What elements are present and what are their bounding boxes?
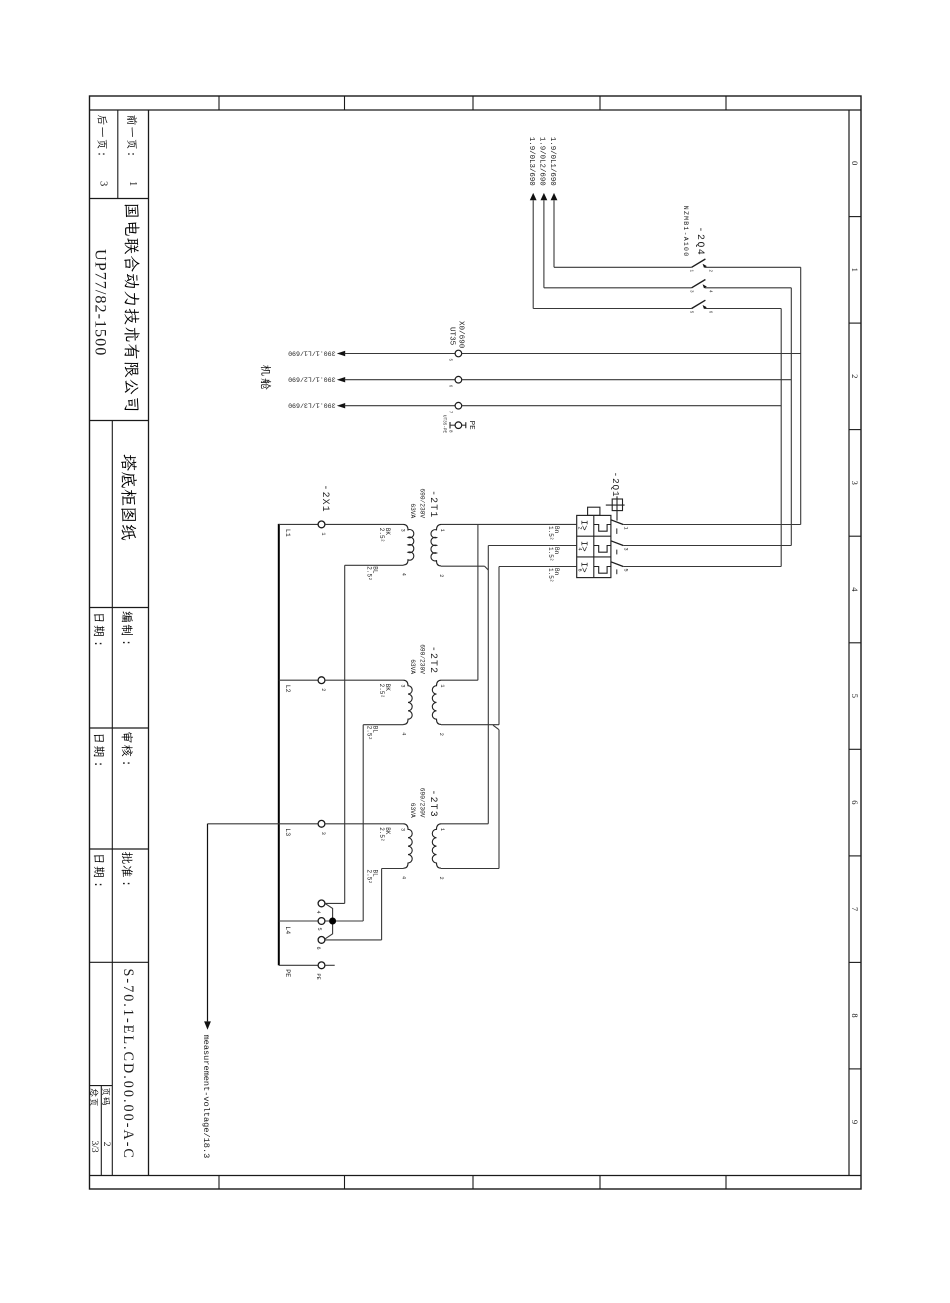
- terminal -2X1:PE: [279, 964, 318, 966]
- svg-text:5: 5: [622, 569, 628, 572]
- breaker -2Q1 pole 3 contact: [611, 562, 623, 567]
- svg-text::: :: [91, 761, 105, 768]
- terminal -2X1:3: [279, 823, 318, 825]
- wire 690V phase 3 riser: [780, 309, 782, 567]
- transformer transformer -2T3 690/230V 63VA: [404, 824, 413, 868]
- wire riser C lower to -2T3:2: [498, 730, 500, 869]
- svg-text:8: 8: [850, 1013, 860, 1017]
- svg-text:L1: L1: [284, 529, 291, 537]
- svg-text:2: 2: [438, 733, 444, 736]
- svg-text::: :: [119, 639, 133, 646]
- wire -2T2:2 to riser C: [441, 724, 499, 726]
- svg-text:1: 1: [320, 532, 326, 535]
- svg-text:3: 3: [689, 290, 694, 293]
- svg-text:PE: PE: [284, 969, 291, 977]
- svg-text:4: 4: [707, 290, 712, 293]
- svg-text:2: 2: [101, 1142, 111, 1147]
- transformer transformer -2T1 690/230V 63VA: [404, 524, 414, 565]
- svg-text:measurement-voltage/18.3: measurement-voltage/18.3: [201, 1035, 211, 1159]
- title page-number sub-table: [90, 1085, 113, 1087]
- svg-text:L3: L3: [284, 828, 291, 836]
- svg-text:-2X1: -2X1: [320, 485, 331, 513]
- svg-text:5: 5: [447, 359, 452, 362]
- svg-text:63VA: 63VA: [409, 503, 416, 518]
- wire X0:7 to riser: [462, 405, 782, 407]
- drawing frame outer border: [90, 96, 862, 1189]
- svg-text:-2Q1: -2Q1: [610, 472, 621, 498]
- svg-text:-2T3: -2T3: [428, 790, 439, 818]
- svg-text:4: 4: [400, 732, 406, 735]
- wire -2T1:2 jog to riser B: [441, 565, 485, 567]
- svg-text:1: 1: [689, 270, 694, 273]
- svg-text:8: 8: [447, 430, 452, 433]
- frame right ruler column: [848, 110, 850, 1176]
- svg-text:3: 3: [320, 832, 326, 835]
- svg-text:2: 2: [320, 688, 326, 691]
- terminal X0:5: [345, 353, 456, 355]
- svg-text:6: 6: [447, 385, 452, 388]
- label compiled-by: [121, 611, 132, 635]
- svg-text:5: 5: [850, 694, 860, 698]
- breaker -2Q1 pole 1 contact: [611, 520, 623, 525]
- frame bottom ruler strip: [90, 1175, 862, 1177]
- svg-text:1.9/0L1/690: 1.9/0L1/690: [548, 137, 556, 186]
- svg-text:63VA: 63VA: [409, 659, 416, 674]
- svg-text:4: 4: [400, 573, 406, 576]
- terminal -2X1:4: [318, 900, 325, 907]
- breaker -2Q4 pole 1: [554, 266, 692, 268]
- title block grid: [148, 110, 150, 1176]
- svg-text:4: 4: [400, 876, 406, 879]
- svg-text:1.9/0L3/690: 1.9/0L3/690: [527, 137, 535, 186]
- svg-text:2: 2: [438, 877, 444, 880]
- svg-text::: :: [95, 151, 107, 158]
- wire -2T3:4 drop to -2X1:6: [382, 868, 404, 870]
- svg-text:L4: L4: [284, 926, 291, 934]
- wire 690V phase 1 riser: [800, 267, 802, 524]
- frame top ruler strip: [90, 109, 862, 111]
- terminal -2X1:2: [279, 679, 318, 681]
- terminal -2X1:6: [318, 937, 325, 944]
- wire X0:5 to riser: [462, 353, 801, 355]
- wire -2T1:1 to -2Q1:2 (L1): [441, 523, 577, 525]
- svg-text:-2T2: -2T2: [428, 646, 439, 674]
- svg-text:2: 2: [577, 527, 583, 530]
- wire riser A L1 to -2T2:1: [477, 524, 479, 680]
- label total-pages: [90, 1089, 98, 1106]
- svg-text:63VA: 63VA: [409, 803, 416, 818]
- wire -2T1:4 drop to -2X1:4: [345, 564, 404, 566]
- svg-text:7: 7: [850, 907, 860, 911]
- arrow to nacelle 390.1/L2/690: [337, 377, 345, 382]
- arrow to nacelle 390.1/L3/690: [337, 403, 345, 408]
- label next-page: [97, 115, 107, 149]
- svg-text:1: 1: [622, 527, 628, 530]
- terminal X0:PE: [449, 422, 451, 429]
- svg-text:9: 9: [850, 1120, 860, 1124]
- label date: [94, 735, 105, 757]
- svg-text:6: 6: [577, 569, 583, 572]
- svg-text:1: 1: [439, 684, 445, 687]
- svg-text::: :: [119, 760, 133, 767]
- svg-text:2: 2: [850, 374, 860, 378]
- circuit breaker -2Q1: [577, 515, 611, 577]
- terminal X0:6: [345, 379, 456, 381]
- svg-text:1: 1: [127, 181, 138, 186]
- svg-text:5: 5: [316, 928, 322, 931]
- svg-text:690/230V: 690/230V: [419, 788, 426, 818]
- svg-text:3: 3: [400, 828, 406, 831]
- svg-text:3: 3: [400, 684, 406, 687]
- label previous-page: [127, 115, 137, 148]
- svg-text:1.9/0L2/690: 1.9/0L2/690: [538, 137, 546, 186]
- svg-text:690/230V: 690/230V: [419, 488, 426, 518]
- svg-text:-2T1: -2T1: [428, 490, 439, 518]
- svg-text:3: 3: [622, 548, 628, 551]
- breaker -2Q1 operator: [612, 499, 622, 511]
- wire to measurement sheet: [208, 823, 279, 825]
- svg-text:6: 6: [850, 800, 860, 804]
- arrow measurement-voltage: [204, 1021, 211, 1029]
- breaker -2Q4 pole 3: [533, 308, 691, 310]
- svg-text:PE: PE: [467, 421, 475, 431]
- svg-text:390.1/L1/690: 390.1/L1/690: [288, 349, 336, 356]
- svg-text::: :: [91, 881, 105, 888]
- svg-text:0: 0: [850, 161, 860, 165]
- svg-text:1: 1: [439, 529, 445, 532]
- label checked-by: [121, 732, 133, 756]
- svg-text:3/3: 3/3: [89, 1141, 99, 1153]
- node 1.9/0L3/690 outgoing arrow: [530, 193, 537, 200]
- svg-text::: :: [91, 640, 105, 647]
- company name: [124, 205, 139, 411]
- svg-text:6: 6: [707, 311, 712, 314]
- svg-text:PE: PE: [315, 974, 321, 980]
- transformer transformer -2T2 690/230V 63VA: [404, 680, 413, 724]
- svg-text:3: 3: [400, 529, 406, 532]
- svg-text:-2Q4: -2Q4: [695, 227, 706, 257]
- svg-text:4: 4: [315, 911, 321, 914]
- svg-text:3: 3: [850, 481, 860, 485]
- wire riser B L2 to -2T3:1: [487, 546, 489, 824]
- terminal -2X1:1: [279, 523, 318, 525]
- svg-text:5: 5: [689, 311, 694, 314]
- label approved-by: [122, 852, 133, 877]
- label date: [94, 855, 105, 877]
- node 1.9/0L1/690 outgoing arrow: [551, 193, 558, 200]
- svg-text::: :: [119, 880, 133, 887]
- svg-text:690/230V: 690/230V: [419, 644, 426, 674]
- terminal X0:7: [345, 405, 456, 407]
- label page-number: [102, 1088, 110, 1105]
- svg-text:L2: L2: [284, 685, 291, 693]
- svg-text:390.1/L3/690: 390.1/L3/690: [288, 402, 336, 409]
- svg-text:UP77/82-1500: UP77/82-1500: [92, 249, 110, 356]
- breaker -2Q4 pole 2: [544, 287, 692, 289]
- wire riser C L3 upper: [498, 567, 500, 725]
- svg-text:S-70.1-EL.CD.00.00-A-C: S-70.1-EL.CD.00.00-A-C: [120, 969, 136, 1160]
- drawing title tower-base cabinet: [121, 455, 137, 541]
- svg-text:UT35-PE: UT35-PE: [442, 415, 447, 433]
- wire X0:6 to riser: [462, 379, 792, 381]
- svg-text:UT35: UT35: [448, 327, 456, 346]
- cable bundle line: [278, 524, 280, 965]
- neutral tie bus with junction: [325, 903, 333, 939]
- svg-text:2: 2: [707, 270, 712, 273]
- arrow to nacelle 390.1/L1/690: [337, 351, 345, 356]
- terminal -2X1:5: [279, 920, 318, 922]
- svg-text::: :: [124, 151, 136, 158]
- svg-text:390.1/L2/690: 390.1/L2/690: [288, 376, 336, 383]
- svg-text:6: 6: [315, 947, 321, 950]
- wire 690V phase 2 riser: [790, 288, 792, 546]
- svg-text:1: 1: [850, 268, 860, 272]
- svg-text:NZMB1-A100: NZMB1-A100: [682, 206, 689, 258]
- label nacelle 机舱: [261, 365, 271, 390]
- label date: [94, 614, 105, 636]
- svg-text:7: 7: [447, 411, 452, 414]
- node 1.9/0L2/690 outgoing arrow: [541, 193, 548, 200]
- svg-text:X0/690: X0/690: [457, 321, 465, 349]
- svg-text:1: 1: [439, 828, 445, 831]
- svg-text:4: 4: [577, 548, 583, 551]
- wire -2T2:4 drop to -2X1:5: [363, 724, 403, 726]
- svg-text:2: 2: [438, 574, 444, 577]
- svg-text:3: 3: [97, 181, 108, 186]
- breaker -2Q1 pole 2 contact: [611, 541, 623, 546]
